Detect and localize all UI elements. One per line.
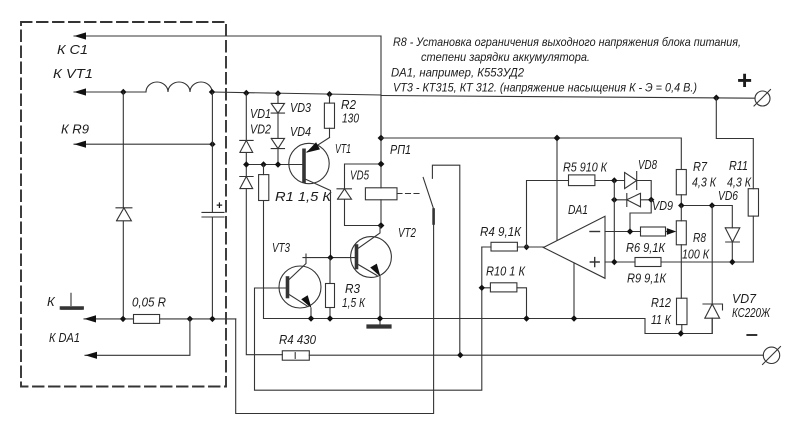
terminal plus xyxy=(755,91,770,106)
arrow К DA1 xyxy=(85,352,97,359)
node dot VD6 bottom xyxy=(729,259,735,265)
svg-text:РП1: РП1 xyxy=(390,142,411,157)
relay РП1 coil xyxy=(365,188,397,200)
РП1 row wire to R7 xyxy=(381,138,681,170)
wire plus jog to R11 xyxy=(716,98,753,189)
DA1 V- pin xyxy=(573,263,575,319)
svg-text:VD4: VD4 xyxy=(290,124,311,139)
svg-text:К VT1: К VT1 xyxy=(53,66,93,81)
op-amp DA1 xyxy=(543,216,605,278)
resistor R11 xyxy=(748,189,758,216)
svg-text:R7: R7 xyxy=(693,159,708,174)
node dot R3 bottom xyxy=(327,315,333,321)
svg-text:VD9: VD9 xyxy=(652,198,673,213)
node dot row left xyxy=(243,161,249,167)
node dot at inductor right xyxy=(209,89,215,95)
arrow R6 to R8 wiper xyxy=(667,228,677,235)
node dot VD3 top xyxy=(275,90,281,96)
svg-text:VD3: VD3 xyxy=(290,100,312,115)
svg-text:R4 430: R4 430 xyxy=(279,332,317,347)
node dot VT3 emitter xyxy=(308,315,314,321)
node dot R7/R8 xyxy=(678,202,684,208)
transistor VT2 xyxy=(351,237,392,278)
ground symbol К xyxy=(62,293,83,309)
inductor L (filter choke) xyxy=(146,82,212,92)
node dot inverting input xyxy=(627,228,633,234)
node dot relay top (РП1 row) xyxy=(378,135,385,142)
ground symbol VT2 emitter xyxy=(379,319,381,325)
diode VD8 xyxy=(614,172,651,200)
resistor R4 9,1K xyxy=(482,246,544,248)
resistor R1 xyxy=(263,165,265,319)
node dot plus jog xyxy=(713,95,720,102)
resistor R12 xyxy=(677,298,688,324)
resistor R4 430 xyxy=(282,351,309,360)
svg-text:R6 9,1К: R6 9,1К xyxy=(626,240,666,255)
ground rail xyxy=(264,318,713,333)
label minus xyxy=(747,334,756,336)
arrow К R9 xyxy=(74,141,86,148)
svg-text:11 К: 11 К xyxy=(651,312,672,327)
relay contact РП1 xyxy=(432,165,459,355)
resistor R9 xyxy=(635,258,661,267)
node dot R10 left xyxy=(479,285,485,291)
node dot К R9 / cap column xyxy=(209,141,215,147)
node dot contact column on minus rail xyxy=(457,352,463,358)
VT3 base wire to divider xyxy=(255,247,482,390)
dashed box (stabilizer block outline) xyxy=(21,22,226,387)
wire sense column to relay contact xyxy=(236,224,434,414)
svg-text:R11: R11 xyxy=(729,158,748,173)
node dot R12 bottom xyxy=(678,330,684,336)
svg-text:К R9: К R9 xyxy=(61,122,89,137)
label minus input xyxy=(590,231,600,233)
svg-text:VD1: VD1 xyxy=(250,106,271,121)
wire VD8 node down to plus input xyxy=(613,181,615,263)
inverting input wire xyxy=(605,231,641,233)
svg-text:К: К xyxy=(47,294,56,309)
svg-text:R8 - Установка ограничения вых: R8 - Установка ограничения выходного нап… xyxy=(393,35,741,49)
svg-text:К С1: К С1 xyxy=(57,42,88,57)
node dot V+ pin xyxy=(554,135,561,142)
diode VD1 column xyxy=(240,93,282,355)
diode VD5 xyxy=(337,164,381,226)
svg-text:VT2: VT2 xyxy=(398,225,417,240)
node dot R2 top xyxy=(326,91,332,97)
node dot VD9 right xyxy=(648,197,654,203)
node dot VD8 left xyxy=(611,177,617,183)
terminal minus xyxy=(763,347,779,363)
svg-text:VD6: VD6 xyxy=(718,188,739,203)
svg-text:130: 130 xyxy=(342,111,360,126)
diode VD3 column xyxy=(271,93,284,164)
svg-text:VD5: VD5 xyxy=(350,168,370,183)
svg-text:R10 1 К: R10 1 К xyxy=(486,264,526,279)
svg-text:К DA1: К DA1 xyxy=(49,330,80,345)
wire zigzag diodes to inverting input xyxy=(630,200,651,232)
svg-text:VD7: VD7 xyxy=(732,291,757,306)
svg-text:R5 910 К: R5 910 К xyxy=(563,160,608,175)
svg-text:+: + xyxy=(737,65,752,95)
svg-text:DA1, например, К553УД2: DA1, например, К553УД2 xyxy=(391,66,524,80)
node dot row VD4 xyxy=(275,161,281,167)
wire R7 bottom node row xyxy=(681,195,732,228)
wire К R9 row xyxy=(74,143,212,145)
zener VD7 xyxy=(703,206,723,334)
base row VT2 xyxy=(303,257,357,259)
node dot VD5 top row xyxy=(378,161,385,168)
node dot VT2 base / R3 xyxy=(327,254,333,260)
svg-text:VD2: VD2 xyxy=(250,122,272,137)
capacitor C (electrolytic) xyxy=(202,93,224,319)
svg-text:R3: R3 xyxy=(345,281,361,296)
node dot VD1 top xyxy=(243,90,249,96)
minus rail xyxy=(309,354,763,356)
svg-text:DA1: DA1 xyxy=(568,202,588,217)
node dot relay bottom xyxy=(378,222,385,229)
wire 0,05R row xyxy=(84,318,236,320)
svg-text:R12: R12 xyxy=(651,295,672,310)
plus input wire xyxy=(605,261,753,263)
wire К C1 vertical / relay column xyxy=(380,36,382,226)
resistor R7 xyxy=(676,170,686,195)
svg-text:R4 9,1К: R4 9,1К xyxy=(480,224,522,239)
node dot R10 ground xyxy=(523,315,529,321)
arrow К VT1 xyxy=(74,88,86,95)
svg-text:1,5 К: 1,5 К xyxy=(342,295,366,310)
top rail right segment xyxy=(381,96,755,99)
wire К C1 row xyxy=(74,35,381,37)
svg-text:100 К: 100 К xyxy=(682,247,710,262)
node dot cap bottom xyxy=(209,316,215,322)
node dot DA1 output xyxy=(523,244,529,250)
node dot VD7 column top xyxy=(709,202,715,208)
svg-text:VT1: VT1 xyxy=(335,141,351,156)
svg-text:R9 9,1К: R9 9,1К xyxy=(627,271,667,286)
resistor R10 xyxy=(482,288,527,319)
resistor R3 xyxy=(329,258,331,319)
dashed link coil to contact xyxy=(397,193,422,195)
wire R11 bottom xyxy=(752,216,754,262)
svg-text:R1 1,5 К: R1 1,5 К xyxy=(275,189,333,204)
transistor VT3 xyxy=(279,266,321,308)
svg-text:VT3 - КТ315, КТ 312. (напряжен: VT3 - КТ315, КТ 312. (напряжение насыщен… xyxy=(393,81,697,95)
node dot at VD flyback top xyxy=(120,89,126,95)
diode VD6 xyxy=(725,228,740,262)
wire К VT1 row xyxy=(74,92,381,95)
svg-text:степени зарядки аккумулятора.: степени зарядки аккумулятора. xyxy=(421,50,590,64)
svg-text:+: + xyxy=(216,200,223,212)
svg-text:КС220Ж: КС220Ж xyxy=(732,305,771,320)
node row VD1-VD4 to VT1 base xyxy=(246,164,304,166)
svg-text:VT3: VT3 xyxy=(272,240,291,255)
node dot V- ground xyxy=(571,315,577,321)
arrow К C1 xyxy=(74,32,86,39)
node dot row R1 xyxy=(260,161,266,167)
svg-text:4,3 К: 4,3 К xyxy=(692,175,717,190)
arrow К ground row xyxy=(84,315,96,322)
diode VD9 xyxy=(614,193,651,207)
transistor VT1 xyxy=(289,143,329,183)
svg-text:VD8: VD8 xyxy=(638,157,658,172)
label plus input xyxy=(590,258,599,267)
svg-text:0,05 R: 0,05 R xyxy=(132,295,166,310)
node dot plus input xyxy=(611,259,617,265)
DA1 V+ pin xyxy=(556,138,558,240)
node dot diode bottom xyxy=(120,316,126,322)
resistor R6 xyxy=(641,227,666,236)
resistor 0,05R xyxy=(134,315,160,324)
wire К DA1 row xyxy=(85,319,190,355)
resistor R8 potentiometer xyxy=(680,206,682,299)
flyback diode (left column) xyxy=(116,92,132,319)
svg-text:R8: R8 xyxy=(693,230,707,245)
resistor R2 xyxy=(329,94,331,137)
node dot VT2 emitter ground xyxy=(377,315,383,321)
resistor R5 feedback xyxy=(527,181,615,248)
node dot К DA1 branch xyxy=(187,316,193,322)
node dot VD9 left xyxy=(611,197,617,203)
